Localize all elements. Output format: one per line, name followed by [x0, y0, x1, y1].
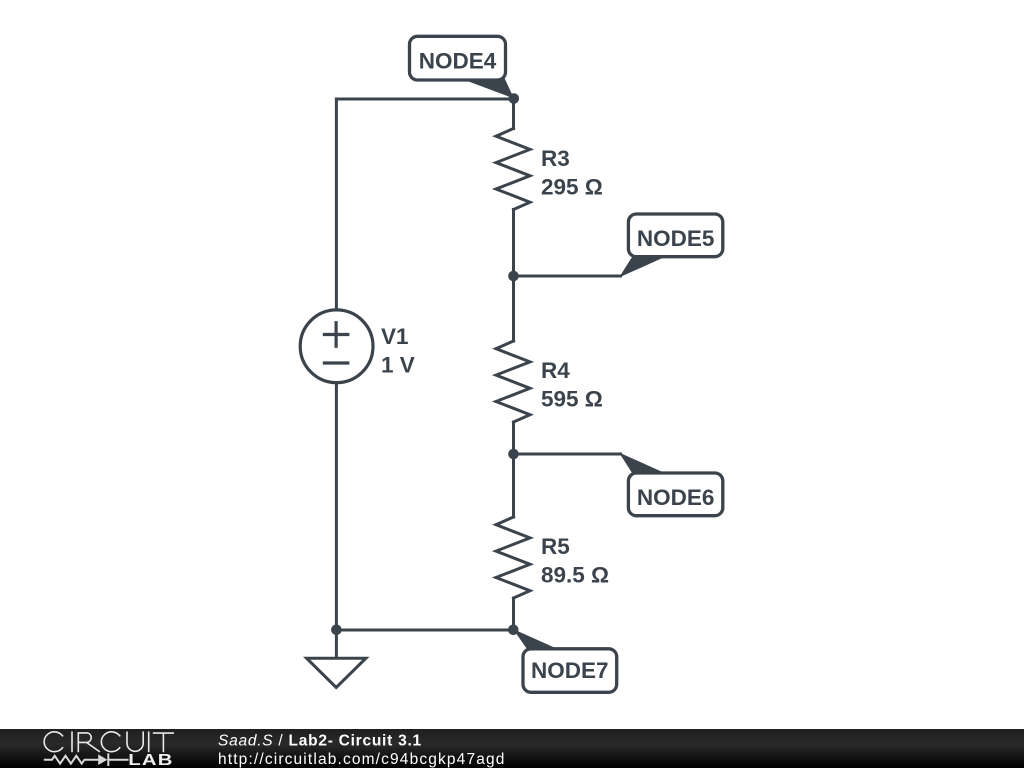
- svg-text:R5: R5: [541, 534, 570, 559]
- wire V1 top lead: [335, 99, 338, 310]
- label R4 / 595 ohm: [541, 358, 603, 412]
- svg-text:R4: R4: [541, 358, 570, 383]
- svg-text:89.5 Ω: 89.5 Ω: [541, 563, 609, 588]
- svg-text:295 Ω: 295 Ω: [541, 175, 603, 200]
- svg-text:595 Ω: 595 Ω: [541, 387, 603, 412]
- wire R5 to NODE7: [512, 598, 515, 630]
- junction dot NODE7: [508, 625, 519, 636]
- wire R4 to R5 through NODE6: [512, 422, 515, 517]
- CircuitLab logo word CIRCUIT (thin drawn letterforms): [44, 732, 173, 752]
- resistor R3: [496, 129, 530, 210]
- junction dot NODE4: [509, 93, 520, 104]
- junction dot NODE6: [508, 449, 519, 460]
- node flag NODE5: [619, 214, 723, 278]
- node flag NODE4: [410, 36, 515, 98]
- CircuitLab logo word LAB: [128, 750, 174, 768]
- resistor R5: [496, 517, 530, 598]
- node flag NODE6: [619, 453, 723, 516]
- svg-text:NODE4: NODE4: [419, 48, 497, 73]
- svg-text:NODE6: NODE6: [637, 485, 715, 510]
- node flag NODE7: [513, 629, 617, 692]
- svg-text:LAB: LAB: [128, 750, 174, 768]
- voltage source V1: [300, 310, 373, 383]
- label V1 / 1 V: [381, 324, 415, 378]
- wire NODE6 tap: [514, 453, 621, 456]
- junction dot ground corner: [331, 625, 342, 636]
- label R5 / 89.5 ohm: [541, 534, 609, 588]
- svg-text:NODE7: NODE7: [531, 658, 609, 683]
- label R3 / 295 ohm: [541, 146, 603, 200]
- resistor R4: [496, 341, 530, 422]
- svg-text:R3: R3: [541, 146, 570, 171]
- svg-text:http://circuitlab.com/c94bcgkp: http://circuitlab.com/c94bcgkp47agd: [218, 751, 506, 768]
- CircuitLab logo resistor-diode squiggle: [45, 754, 128, 765]
- ground: [307, 630, 366, 688]
- svg-text:V1: V1: [381, 324, 409, 349]
- wire NODE4 to R3: [512, 99, 515, 129]
- wire V1 bottom lead: [335, 383, 338, 631]
- svg-text:NODE5: NODE5: [637, 226, 715, 251]
- wire R3 to R4 through NODE5: [512, 210, 515, 342]
- footer bar: [0, 729, 1024, 768]
- wire NODE5 tap: [514, 275, 621, 278]
- wire bottom horizontal (NODE7 net): [336, 629, 513, 632]
- wire top horizontal (NODE4 net): [336, 98, 513, 101]
- svg-text:1 V: 1 V: [381, 353, 415, 378]
- svg-text:Saad.S / Lab2- Circuit 3.1: Saad.S / Lab2- Circuit 3.1: [218, 733, 422, 750]
- junction dot NODE5: [508, 271, 519, 282]
